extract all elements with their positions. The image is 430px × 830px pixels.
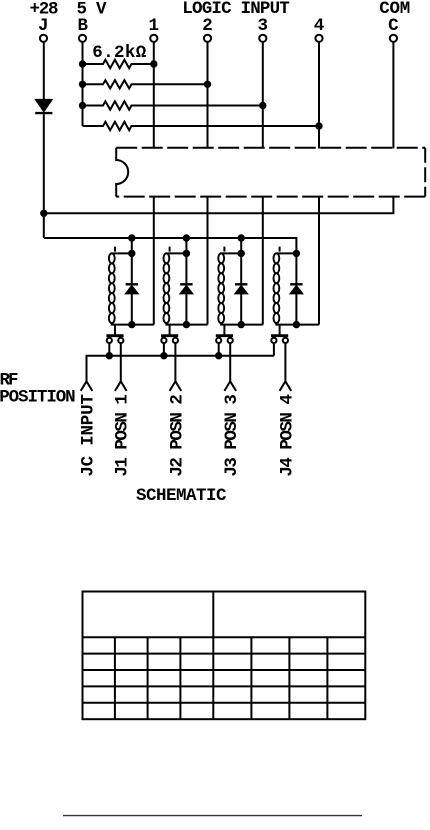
node relay K1 bottom (128, 321, 135, 328)
junction R2 / input column 2 (204, 81, 211, 88)
contact bar K2 (161, 334, 178, 337)
wire contact K4a to RF bus (273, 343, 275, 355)
wire coil supply bus (44, 238, 297, 253)
contact bar K1 (106, 334, 123, 337)
connector pin J4 (280, 381, 292, 391)
wire coil bus drop relay K2 (185, 238, 187, 253)
IC U1 quad relay driver (116, 148, 425, 197)
wire relay K2 top node to coil (165, 252, 186, 254)
svg-text:J2 POSN 2: J2 POSN 2 (167, 394, 187, 477)
junction coil bus / relay K3 (238, 234, 245, 241)
resistor R3 6.2k from 5V bus to logic input 3 (83, 101, 263, 109)
resistor R4 6.2k from 5V bus to logic input 4 (83, 122, 320, 130)
inductor relay coil K1 (109, 253, 115, 323)
terminal B (79, 35, 86, 42)
inductor relay coil K2 (164, 253, 170, 323)
contact terminal K4b (283, 338, 288, 343)
junction RF bus / contact K1a (106, 352, 113, 359)
wire IC output 2 to relay K2 (207, 197, 209, 325)
wire coil K3 tail (223, 325, 225, 335)
junction RF bus / contact K2a (160, 352, 167, 359)
wire relay K3 bottom node (220, 324, 263, 326)
junction R1 / input column 1 (150, 60, 157, 67)
svg-text:J: J (38, 16, 49, 36)
terminal J (40, 35, 47, 42)
svg-text:POSITION: POSITION (0, 387, 76, 407)
contact terminal K1a (107, 338, 112, 343)
resistor R2 6.2k from 5V bus to logic input 2 (83, 80, 208, 88)
wire IC output 4 to relay K4 (318, 197, 320, 325)
resistor R1 6.2k from 5V bus to logic input 1 (83, 60, 154, 68)
svg-text:J3 POSN 3: J3 POSN 3 (222, 394, 242, 477)
junction coil bus / relay K2 (183, 234, 190, 241)
wire coil bus drop relay K1 (131, 238, 133, 253)
wire J terminal to diode CR1 (43, 43, 45, 100)
mechanical link dash K3 (223, 247, 225, 252)
wire contact K3a to RF bus (218, 343, 220, 355)
wire relay K1 bottom node (111, 324, 154, 326)
diode CR2 across coil K1 (125, 253, 138, 324)
mechanical link dash K1 (114, 247, 116, 252)
inductor relay coil K3 (218, 253, 224, 323)
wire RF common bus (87, 356, 274, 382)
wire logic input 2 to IC pin (207, 43, 209, 149)
contact bar K3 (216, 334, 233, 337)
wire relay K4 top node to coil (275, 252, 296, 254)
junction 5V bus / R1 (79, 60, 86, 67)
wire coil K1 tail (114, 325, 116, 335)
wire IC output 1 to relay K1 (153, 197, 155, 325)
svg-text:3: 3 (258, 16, 269, 36)
svg-text:4: 4 (314, 16, 325, 36)
wire C terminal to IC pin (392, 43, 394, 149)
terminal logic input 1 (150, 35, 157, 42)
junction 5V bus / R2 (79, 81, 86, 88)
contact terminal K1b (118, 338, 123, 343)
contact bar K4 (271, 334, 288, 337)
terminal logic input 2 (204, 35, 211, 42)
connector pin J2 (170, 381, 182, 391)
node relay K2 top (183, 250, 190, 257)
wire contact K1b to J1 connector (120, 343, 122, 381)
wire coil bus drop relay K3 (240, 238, 242, 253)
node relay K3 top (238, 250, 245, 257)
footer rule (63, 815, 362, 817)
junction 5V bus / R3 (79, 102, 86, 109)
inductor relay coil K4 (274, 253, 280, 323)
terminal logic input 4 (315, 35, 322, 42)
wire coil K2 tail (169, 325, 171, 335)
junction RF bus / contact K3a (215, 352, 222, 359)
wire relay K3 top node to coil (220, 252, 241, 254)
connector pin J1 (115, 381, 127, 391)
contact terminal K4a (271, 338, 276, 343)
mechanical link dash K4 (279, 247, 281, 252)
wire relay K2 bottom node (165, 324, 207, 326)
wire contact K3b to J3 connector (229, 343, 231, 381)
junction +28 rail / J column (40, 210, 47, 217)
wire +28 rail to IC supply pin (44, 197, 394, 214)
svg-text:J1 POSN 1: J1 POSN 1 (113, 394, 133, 477)
diode CR1 (35, 99, 52, 113)
wire contact K1a to RF bus (108, 343, 110, 355)
node relay K2 bottom (183, 321, 190, 328)
node relay K1 top (128, 250, 135, 257)
node relay K4 bottom (293, 321, 300, 328)
wire logic input 3 to IC pin (262, 43, 264, 149)
node relay K3 bottom (238, 321, 245, 328)
connector pin JC (81, 381, 93, 391)
node relay K4 top (293, 250, 300, 257)
svg-text:1: 1 (149, 16, 160, 36)
wire CR1 cathode down to +28 rail (43, 114, 45, 238)
svg-text:LOGIC INPUT: LOGIC INPUT (182, 0, 289, 19)
wire coil K4 tail (279, 325, 281, 335)
contact terminal K3a (216, 338, 221, 343)
wire contact K4b to J4 connector (284, 343, 286, 381)
svg-text:2: 2 (202, 16, 213, 36)
svg-text:6.2kΩ: 6.2kΩ (92, 43, 146, 63)
wire IC output 3 to relay K3 (262, 197, 264, 325)
terminal C (390, 35, 397, 42)
contact terminal K3b (228, 338, 233, 343)
wire contact K2a to RF bus (163, 343, 165, 355)
diode CR5 across coil K4 (290, 253, 303, 324)
svg-text:J4 POSN 4: J4 POSN 4 (277, 394, 297, 477)
contact terminal K2b (173, 338, 178, 343)
diode CR4 across coil K3 (235, 253, 248, 324)
junction R4 / input column 4 (315, 122, 322, 129)
wire contact K2b to J2 connector (174, 343, 176, 381)
diode CR3 across coil K2 (180, 253, 193, 324)
connector pin J3 (224, 381, 236, 391)
terminal logic input 3 (259, 35, 266, 42)
mechanical link dash K2 (169, 247, 171, 252)
svg-text:SCHEMATIC: SCHEMATIC (136, 486, 227, 506)
junction R3 / input column 3 (259, 102, 266, 109)
contact terminal K2a (161, 338, 166, 343)
wire relay K1 top node to coil (111, 252, 132, 254)
wire logic input 4 to IC pin (318, 43, 320, 149)
wire B terminal bus (82, 43, 84, 127)
svg-text:B: B (77, 16, 88, 36)
svg-text:JC INPUT: JC INPUT (78, 394, 98, 477)
wire relay K4 bottom node (275, 324, 319, 326)
svg-text:C: C (388, 16, 399, 36)
wire logic input 1 to IC pin (153, 43, 155, 149)
junction coil bus / relay K1 (128, 234, 135, 241)
truth table grid (83, 592, 366, 720)
